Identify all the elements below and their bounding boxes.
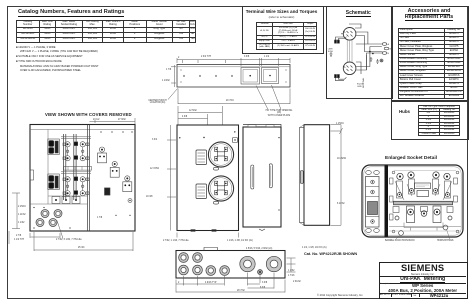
svg-text:B: B: [388, 53, 390, 55]
svg-text:N: N: [390, 49, 392, 51]
svg-text:SIDE: SIDE: [328, 51, 334, 53]
svg-text:A: A: [388, 43, 390, 46]
svg-text:NEUTRAL: NEUTRAL: [362, 77, 365, 88]
svg-text:GND: GND: [357, 86, 362, 88]
